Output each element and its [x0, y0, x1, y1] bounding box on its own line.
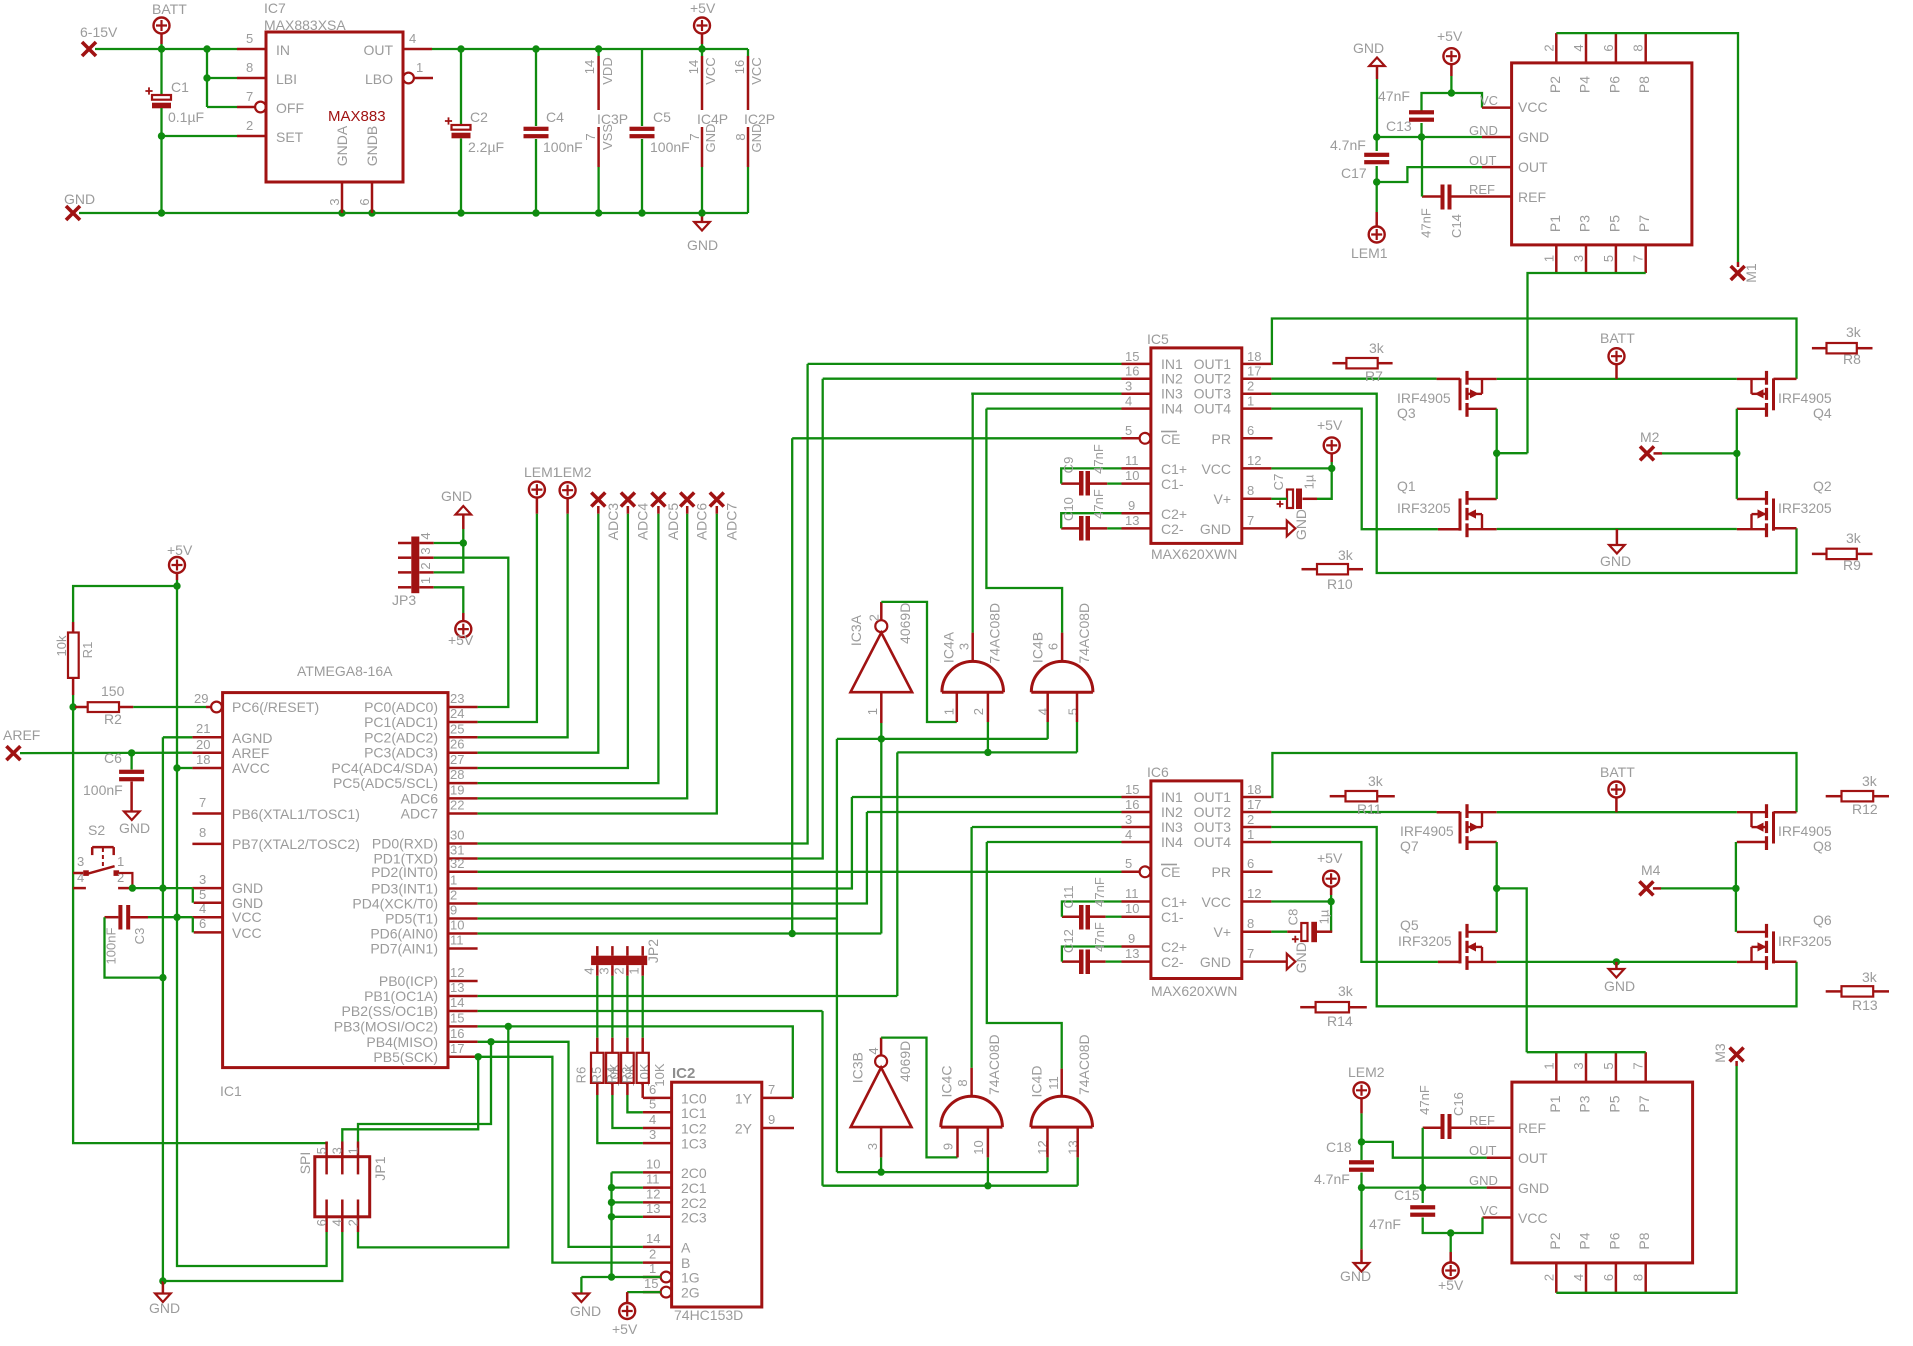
- bottom pins 1 3 5 7: [1555, 245, 1558, 273]
- pin 32 PD2(INT0): [448, 871, 478, 874]
- svg-text:4: 4: [1125, 394, 1132, 409]
- svg-text:8: 8: [733, 133, 748, 140]
- pin 10 PD6(AIN0): [448, 932, 478, 935]
- svg-text:GND: GND: [1469, 1173, 1498, 1188]
- wire BATT down to C1: [160, 49, 162, 95]
- svg-text:V+: V+: [1213, 924, 1231, 940]
- svg-text:IC4C: IC4C: [939, 1066, 955, 1098]
- svg-text:1: 1: [865, 708, 880, 715]
- wire R3 to 1C0: [641, 1095, 644, 1098]
- resistor R9: [1827, 549, 1857, 559]
- svg-text:C9: C9: [1061, 457, 1076, 474]
- svg-text:C8: C8: [1286, 909, 1301, 926]
- wire PB1 net vertical: [896, 752, 898, 996]
- node ADC7: [710, 493, 724, 507]
- svg-text:PC4(ADC4/SDA): PC4(ADC4/SDA): [331, 760, 438, 776]
- AND gate IC4D 74AC08D: [1031, 1096, 1093, 1127]
- pin 10 C1- IC5: [1122, 482, 1151, 485]
- svg-text:7: 7: [1247, 946, 1254, 961]
- pin 13 2C3 IC2: [643, 1216, 672, 1219]
- pin 9 C2+ IC5: [1122, 512, 1151, 515]
- wire GND bottom to JP1 pin4: [163, 1232, 342, 1281]
- bottom pins 2 4 6 8 LEM2: [1555, 1263, 1558, 1293]
- pin 14 A IC2: [643, 1246, 672, 1249]
- wire JP1 pin1 to PB4: [358, 1042, 491, 1142]
- svg-text:V+: V+: [1213, 491, 1231, 507]
- svg-text:7: 7: [583, 133, 598, 140]
- svg-text:GND: GND: [1200, 521, 1231, 537]
- svg-text:IC6: IC6: [1147, 764, 1169, 780]
- svg-text:C15: C15: [1394, 1187, 1420, 1203]
- svg-text:OUT: OUT: [1518, 159, 1548, 175]
- pin 16 IC6: [1122, 811, 1151, 814]
- svg-text:GND: GND: [1200, 954, 1231, 970]
- wire M4 node to LEM2 connector: [1497, 888, 1527, 1052]
- svg-text:4: 4: [649, 1112, 656, 1127]
- svg-text:10: 10: [646, 1156, 660, 1171]
- wire IC3A output to IC4A pin1: [881, 602, 957, 722]
- svg-text:100nF: 100nF: [83, 782, 123, 798]
- pin 6 GNDB: [371, 182, 374, 213]
- svg-text:R4: R4: [604, 1067, 619, 1084]
- svg-text:M2: M2: [1640, 429, 1660, 445]
- svg-text:2: 2: [450, 888, 457, 903]
- pin OUT LEM2: [1487, 1156, 1512, 1159]
- pin 3 1C3 IC2: [643, 1142, 672, 1145]
- svg-text:MAX883XSA: MAX883XSA: [264, 17, 346, 33]
- svg-text:P4: P4: [1577, 1232, 1593, 1249]
- svg-text:4: 4: [330, 1219, 345, 1226]
- svg-text:VCC: VCC: [749, 57, 764, 84]
- svg-text:8: 8: [246, 60, 253, 75]
- svg-text:PD0(RXD): PD0(RXD): [372, 836, 438, 852]
- gate lead Q2: [1774, 527, 1797, 530]
- pin VCC LEM2: [1483, 1216, 1512, 1219]
- svg-text:10: 10: [1125, 468, 1139, 483]
- wire R4 to 1C1: [627, 1095, 643, 1112]
- svg-text:M4: M4: [1641, 862, 1661, 878]
- svg-text:JP1: JP1: [372, 1156, 388, 1180]
- svg-text:IC4D: IC4D: [1029, 1066, 1045, 1098]
- svg-text:1: 1: [626, 967, 641, 974]
- svg-text:P2: P2: [1547, 76, 1563, 93]
- svg-text:2: 2: [1541, 1274, 1556, 1281]
- pin 6 1C0 IC2: [643, 1097, 672, 1100]
- top pins 2 4 6 8: [1555, 33, 1558, 63]
- resistor R7: [1346, 358, 1377, 368]
- svg-text:4: 4: [581, 967, 596, 974]
- svg-text:LEM1: LEM1: [1351, 245, 1388, 261]
- svg-text:8: 8: [1631, 44, 1646, 51]
- pin 10 C1- IC6: [1122, 915, 1151, 918]
- svg-text:3k: 3k: [1338, 983, 1354, 999]
- wire R6 to 1C3: [597, 1095, 643, 1143]
- svg-text:3k: 3k: [1368, 773, 1384, 789]
- svg-text:2: 2: [345, 1219, 360, 1226]
- svg-text:IRF4905: IRF4905: [1400, 823, 1454, 839]
- svg-text:3: 3: [418, 547, 433, 554]
- svg-text:VCC: VCC: [703, 57, 718, 84]
- wire ADC5 down: [478, 514, 659, 783]
- pin 8 LBI: [237, 77, 266, 80]
- pin 2 B IC2: [643, 1261, 672, 1264]
- svg-text:4: 4: [418, 532, 433, 539]
- svg-text:32: 32: [450, 856, 464, 871]
- svg-text:GND: GND: [1518, 1180, 1549, 1196]
- capacitor C11: [1079, 905, 1084, 930]
- svg-text:PC6(/RESET): PC6(/RESET): [232, 699, 319, 715]
- svg-text:3: 3: [199, 872, 206, 887]
- svg-text:9: 9: [768, 1112, 775, 1127]
- svg-text:7: 7: [1247, 513, 1254, 528]
- capacitor C12: [1079, 950, 1084, 975]
- pin 8 V+ IC5: [1242, 498, 1272, 501]
- svg-text:15: 15: [1125, 782, 1139, 797]
- wire GND vertical to bottom: [162, 888, 164, 1282]
- wire M4 node to Q5 drain: [1496, 888, 1498, 932]
- svg-text:2: 2: [866, 614, 881, 621]
- pin 13 C2- IC5: [1122, 527, 1151, 530]
- svg-text:9: 9: [1128, 498, 1135, 513]
- svg-text:4.7nF: 4.7nF: [1330, 137, 1366, 153]
- svg-text:1: 1: [416, 60, 423, 75]
- svg-text:1: 1: [649, 1261, 656, 1276]
- svg-text:P7: P7: [1636, 1095, 1652, 1112]
- wire GND rail: [79, 212, 748, 214]
- pin 16 IC5: [1122, 377, 1151, 380]
- svg-text:100nF: 100nF: [104, 928, 119, 965]
- svg-text:IC3B: IC3B: [849, 1052, 865, 1083]
- svg-text:P2: P2: [1547, 1232, 1563, 1249]
- wire IC5 IN3 from IC4A: [971, 393, 1121, 395]
- svg-text:74AC08D: 74AC08D: [987, 603, 1003, 664]
- pin 15 IC5: [1122, 363, 1151, 366]
- wire C17 to OUT pin: [1377, 167, 1482, 182]
- wire +5V junction down to C8: [1330, 902, 1332, 932]
- capacitor C2: [460, 49, 462, 125]
- svg-text:PD3(INT1): PD3(INT1): [371, 881, 438, 897]
- svg-text:6-15V: 6-15V: [80, 24, 118, 40]
- svg-text:ADC7: ADC7: [723, 503, 739, 541]
- pin 10 2C0 IC2: [643, 1171, 672, 1174]
- svg-text:C11: C11: [1061, 886, 1076, 909]
- transistor Q7 IRF4905: [1459, 812, 1462, 844]
- svg-text:C1: C1: [171, 79, 189, 95]
- svg-text:14: 14: [582, 60, 597, 74]
- svg-text:OUT3: OUT3: [1194, 386, 1232, 402]
- svg-text:VCC: VCC: [1518, 99, 1548, 115]
- svg-text:Q7: Q7: [1400, 838, 1419, 854]
- svg-text:OUT2: OUT2: [1194, 371, 1232, 387]
- wire GND rail top bridge: [1497, 528, 1737, 530]
- pin 13 PB1(OC1A): [448, 995, 478, 998]
- svg-text:18: 18: [196, 752, 210, 767]
- svg-text:PB0(ICP): PB0(ICP): [379, 973, 438, 989]
- wire RESET net down to JP1: [73, 707, 327, 1143]
- svg-text:IC2: IC2: [672, 1065, 695, 1082]
- svg-text:R10: R10: [1327, 576, 1353, 592]
- svg-text:MAX620XWN: MAX620XWN: [1151, 983, 1237, 999]
- svg-text:R8: R8: [1843, 351, 1861, 367]
- svg-text:8: 8: [1631, 1274, 1646, 1281]
- svg-text:IC4B: IC4B: [1030, 632, 1046, 663]
- svg-text:2C3: 2C3: [681, 1209, 707, 1225]
- svg-text:PC2(ADC2): PC2(ADC2): [364, 729, 438, 745]
- wire C1 to GND rail and SET: [160, 108, 162, 213]
- wire M2 node to connector: [1497, 452, 1528, 454]
- svg-text:P3: P3: [1577, 1095, 1593, 1112]
- pin 17 IC6: [1242, 811, 1272, 814]
- wire OUT3 IC6 to Q6 gate: [1271, 827, 1796, 1006]
- svg-text:JP3: JP3: [392, 592, 416, 608]
- svg-text:P3: P3: [1577, 215, 1593, 232]
- pin 2 SET: [237, 135, 266, 138]
- svg-text:2G: 2G: [681, 1285, 700, 1301]
- pin 11 C1+ IC5: [1122, 467, 1151, 470]
- svg-text:150: 150: [101, 683, 125, 699]
- svg-text:6: 6: [1046, 643, 1061, 650]
- wire AGND down to GND net: [163, 736, 193, 738]
- pin 3 GNDA: [341, 182, 344, 213]
- wire 6-15V to IC7 IN: [95, 48, 237, 50]
- wire C3 left to GND net: [105, 917, 163, 977]
- svg-text:IRF3205: IRF3205: [1778, 933, 1832, 949]
- wire Q3 drain to M2 node: [1496, 409, 1498, 453]
- svg-text:R2: R2: [104, 711, 122, 727]
- pin 9 PD5(T1): [448, 917, 478, 920]
- supply symbol +5V at IC2: [626, 1292, 629, 1303]
- wire GND row LEM2: [1362, 1186, 1487, 1188]
- wire BATT rail top bridge: [1497, 378, 1737, 380]
- svg-text:IRF4905: IRF4905: [1778, 823, 1832, 839]
- wire IC6 CE net from PD2: [478, 871, 1122, 873]
- wire +5V to VCC pin: [1451, 93, 1482, 108]
- svg-text:22: 22: [450, 798, 464, 813]
- svg-text:16: 16: [450, 1026, 464, 1041]
- svg-text:GND: GND: [149, 1300, 180, 1316]
- svg-text:1µ: 1µ: [1302, 474, 1317, 489]
- svg-text:IC4A: IC4A: [940, 631, 956, 663]
- svg-text:2.2µF: 2.2µF: [468, 139, 504, 155]
- wire OUT3 to Q2 gate: [1271, 394, 1796, 573]
- wire inverter input net upper: [837, 738, 1048, 740]
- svg-text:11: 11: [1125, 453, 1139, 468]
- pin 12 2C2 IC2: [643, 1201, 672, 1204]
- svg-text:P1: P1: [1547, 1095, 1563, 1112]
- svg-text:IC5: IC5: [1147, 331, 1169, 347]
- wire bottom pins to M2 node: [1528, 273, 1646, 453]
- svg-text:VCC: VCC: [1201, 461, 1231, 477]
- svg-text:C14: C14: [1449, 214, 1464, 238]
- svg-text:PD6(AIN0): PD6(AIN0): [370, 926, 438, 942]
- wire IC6 IN2 from PD4: [867, 811, 1122, 813]
- wire 2G to +5V: [627, 1291, 661, 1293]
- svg-text:C2: C2: [470, 109, 488, 125]
- svg-text:2: 2: [418, 562, 433, 569]
- inverter IC3B 4069D: [851, 1068, 912, 1128]
- svg-text:JP2: JP2: [645, 939, 661, 963]
- svg-text:3: 3: [327, 198, 342, 205]
- svg-text:VSS: VSS: [600, 124, 615, 150]
- svg-text:4: 4: [1125, 827, 1132, 842]
- wire GND row LEM1: [1377, 136, 1482, 138]
- svg-text:P5: P5: [1606, 1095, 1622, 1112]
- wire PD4 to IC6 IN2: [478, 812, 867, 904]
- svg-text:1C1: 1C1: [681, 1105, 707, 1121]
- connector X2 LEM2 box: [1512, 1082, 1693, 1263]
- wire PD1 to IC5 IN2: [478, 379, 823, 859]
- resistor R10: [1317, 564, 1348, 574]
- pin 21 AGND: [192, 736, 222, 739]
- pin 3 IC6: [1122, 826, 1151, 829]
- wire OUT to +5V rail: [432, 48, 748, 50]
- svg-text:17: 17: [450, 1041, 464, 1056]
- wire PB2 to lower AND inputs: [478, 1010, 823, 1012]
- svg-text:2: 2: [611, 967, 626, 974]
- svg-text:Q2: Q2: [1813, 478, 1832, 494]
- svg-text:GNDB: GNDB: [364, 126, 380, 166]
- svg-text:100nF: 100nF: [650, 139, 690, 155]
- svg-text:GND: GND: [687, 237, 718, 253]
- svg-text:C4: C4: [546, 109, 564, 125]
- svg-text:100nF: 100nF: [543, 139, 583, 155]
- pin 2 IC6: [1242, 826, 1272, 829]
- capacitor C16: [1441, 1114, 1445, 1139]
- svg-text:P1: P1: [1547, 215, 1563, 232]
- svg-text:1: 1: [1541, 255, 1556, 262]
- svg-text:23: 23: [450, 691, 464, 706]
- svg-text:12: 12: [1247, 453, 1261, 468]
- svg-text:R6: R6: [574, 1067, 589, 1084]
- svg-text:47nF: 47nF: [1091, 444, 1106, 474]
- svg-text:4069D: 4069D: [897, 603, 913, 644]
- wire AREF to AGND pin: [20, 752, 192, 755]
- power pins IC4P: [701, 49, 703, 56]
- supply symbol LEM1: [1376, 182, 1378, 212]
- svg-text:16: 16: [732, 60, 747, 74]
- supply symbol +5V below JP3: [434, 587, 464, 613]
- wire 1Y to PB3: [478, 1026, 793, 1098]
- svg-text:10: 10: [971, 1140, 986, 1154]
- top pins 1 3 5 7 LEM2: [1555, 1052, 1558, 1082]
- svg-text:A: A: [681, 1239, 691, 1255]
- svg-text:6: 6: [1247, 856, 1254, 871]
- svg-text:3: 3: [649, 1127, 656, 1142]
- pin 13 IC4D: [1076, 1127, 1079, 1157]
- svg-text:R5: R5: [589, 1067, 604, 1084]
- AND gate IC4B 74AC08D: [1031, 661, 1093, 692]
- svg-text:ATMEGA8-16A: ATMEGA8-16A: [297, 663, 393, 679]
- wire ADC4 down: [478, 514, 628, 768]
- wire C14 left to GND net: [1421, 137, 1423, 197]
- svg-text:6: 6: [314, 1219, 329, 1226]
- svg-text:REF: REF: [1469, 1113, 1495, 1128]
- pin 4 IC4B: [1046, 692, 1049, 722]
- svg-text:P5: P5: [1606, 215, 1622, 232]
- connector JP2: [591, 956, 647, 965]
- svg-text:4069D: 4069D: [897, 1041, 913, 1082]
- svg-text:CE: CE: [1161, 431, 1180, 447]
- wire OUT2 IC6 to Q7 gate: [1271, 811, 1436, 813]
- svg-text:6: 6: [1601, 44, 1616, 51]
- svg-text:8: 8: [1247, 483, 1254, 498]
- svg-text:3: 3: [865, 1143, 880, 1150]
- svg-text:5: 5: [1125, 856, 1132, 871]
- pin 3 IC5: [1122, 392, 1151, 395]
- svg-text:1Y: 1Y: [735, 1091, 753, 1107]
- pin 17 PB5(SCK): [448, 1056, 478, 1059]
- svg-text:C1-: C1-: [1161, 476, 1184, 492]
- svg-text:R11: R11: [1357, 801, 1382, 817]
- svg-text:ADC4: ADC4: [634, 503, 650, 541]
- svg-text:PB1(OC1A): PB1(OC1A): [364, 988, 438, 1004]
- capacitor C15: [1422, 1188, 1424, 1203]
- svg-text:2: 2: [1247, 812, 1254, 827]
- capacitor C3: [118, 905, 122, 930]
- pin 4 IC5: [1122, 407, 1151, 410]
- svg-text:GND: GND: [119, 820, 150, 836]
- transistor Q4 IRF4905: [1772, 378, 1775, 410]
- svg-text:OUT2: OUT2: [1194, 804, 1232, 820]
- wire IC3B output to IC4C pin9: [881, 1038, 957, 1158]
- node ADC3: [591, 493, 605, 507]
- svg-text:C3: C3: [132, 928, 147, 945]
- svg-text:C6: C6: [104, 750, 122, 766]
- svg-text:3k: 3k: [1846, 324, 1862, 340]
- node ADC5: [651, 493, 665, 507]
- wire VCC pins tie: [192, 917, 194, 932]
- pin 5 GND: [194, 901, 223, 904]
- svg-text:ADC6: ADC6: [694, 503, 710, 541]
- svg-text:MAX883: MAX883: [328, 108, 386, 125]
- svg-text:+5V: +5V: [1317, 417, 1343, 433]
- svg-text:74AC08D: 74AC08D: [1076, 1034, 1092, 1095]
- ground symbol GND at IC2: [574, 1294, 590, 1303]
- wire Q7 drain to M4 node: [1496, 842, 1498, 888]
- wire R2 to RESET pin: [133, 706, 206, 708]
- svg-text:ADC3: ADC3: [605, 503, 621, 541]
- svg-text:16: 16: [1125, 797, 1139, 812]
- svg-text:IRF3205: IRF3205: [1398, 933, 1452, 949]
- wire top pins to M1: [1556, 33, 1738, 262]
- svg-text:3: 3: [330, 1147, 345, 1154]
- svg-text:P7: P7: [1636, 215, 1652, 232]
- pin 7 1Y IC2: [762, 1097, 793, 1100]
- svg-text:R12: R12: [1852, 801, 1878, 817]
- capacitor C8: [1317, 930, 1332, 933]
- svg-text:0.1µF: 0.1µF: [168, 109, 204, 125]
- svg-text:2C0: 2C0: [681, 1165, 707, 1181]
- svg-text:C2+: C2+: [1161, 939, 1187, 955]
- svg-text:+5V: +5V: [1437, 28, 1463, 44]
- svg-text:12: 12: [1247, 886, 1261, 901]
- IC U IC7 MAX883 box: [266, 32, 403, 182]
- svg-text:R1: R1: [80, 642, 95, 659]
- power pins IC2P: [747, 49, 749, 56]
- svg-text:IRF4905: IRF4905: [1397, 390, 1451, 406]
- svg-text:3: 3: [596, 967, 611, 974]
- svg-text:C1-: C1-: [1161, 909, 1184, 925]
- svg-text:VCC: VCC: [232, 925, 262, 941]
- svg-text:S2: S2: [88, 822, 105, 838]
- IC U IC2 74HC153 box: [672, 1082, 762, 1307]
- svg-text:6: 6: [357, 198, 372, 205]
- svg-text:17: 17: [1247, 364, 1261, 379]
- svg-text:47nF: 47nF: [1419, 208, 1434, 238]
- wire Q8 drain / Q6 drain verticals: [1735, 842, 1737, 932]
- transistor Q6 IRF3205: [1772, 931, 1775, 963]
- svg-text:47nF: 47nF: [1378, 88, 1410, 104]
